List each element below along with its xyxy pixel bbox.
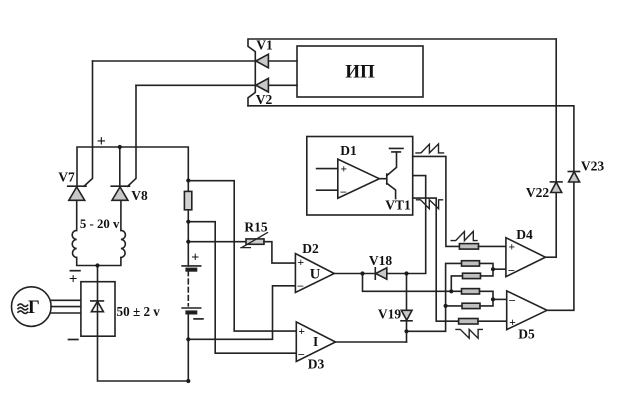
- resistor Rtop: [459, 244, 478, 250]
- generator G circle: [12, 287, 52, 327]
- wire branch to R15: [188, 241, 246, 243]
- wire V8 anode down to coil: [120, 200, 122, 230]
- svg-text:+: +: [509, 242, 516, 254]
- svg-text:D3: D3: [308, 357, 325, 372]
- wire Ra to D4 minus node: [480, 263, 494, 269]
- wire D1 input stubs: [317, 169, 338, 191]
- diode V1: [256, 54, 269, 68]
- inductor right coil: [121, 230, 126, 257]
- svg-text:–: –: [297, 280, 304, 292]
- pin labels op-amp D3: [297, 326, 305, 361]
- svg-text:Г: Г: [28, 298, 40, 318]
- wire R15 to D2 plus input: [264, 242, 295, 263]
- rectifier box: [81, 282, 115, 337]
- wire Rbot to D5 plus: [478, 320, 507, 322]
- diode V18: [375, 268, 387, 279]
- wire Rb down to node row: [451, 276, 462, 291]
- diode V23: [568, 172, 579, 183]
- wire battery bottom to D2 minus input: [188, 286, 295, 340]
- wire gate of V7 up to V1 row: [84, 61, 93, 186]
- wire D1 ramp output to Rtop feed: [413, 156, 460, 246]
- wire V2 row: [136, 84, 297, 86]
- inductor left coil: [72, 230, 77, 257]
- rheostat R15: [241, 233, 268, 248]
- svg-text:D4: D4: [516, 227, 533, 242]
- pin labels op-amp D1: [340, 164, 348, 199]
- pin labels op-amp D5: [508, 295, 516, 329]
- wire generator to rectifier (3 lines): [51, 300, 81, 313]
- svg-text:+: +: [69, 272, 78, 288]
- wire D1 inverted ramp output to Rbot feed: [413, 198, 459, 321]
- wire rail drop to V8: [119, 147, 121, 186]
- wire V18 bypass node down to resistor row: [363, 274, 462, 292]
- wire plus rail: [77, 147, 188, 191]
- svg-text:V18: V18: [369, 253, 392, 268]
- svg-text:–: –: [508, 265, 515, 277]
- wire rail shunt to battery: [187, 211, 189, 266]
- minus mark below rectifier: [69, 339, 78, 341]
- wire node to D4 minus: [493, 268, 506, 270]
- diode V19: [401, 310, 412, 321]
- wire V7 anode down to coil: [76, 200, 78, 230]
- resistor Rd: [462, 303, 480, 308]
- minus mark battery bottom: [194, 318, 203, 320]
- svg-text:I: I: [313, 334, 318, 349]
- wire battery to bottom rail corner: [187, 314, 189, 381]
- wire V19 bottom node to R-bank: [407, 263, 462, 331]
- sawtooth icon below Rbot (falling): [456, 329, 482, 338]
- wire node to D5 minus: [493, 298, 507, 300]
- wire dashed battery middle: [187, 271, 189, 306]
- svg-text:R15: R15: [244, 220, 267, 235]
- svg-text:+: +: [191, 251, 199, 266]
- svg-text:V2: V2: [256, 92, 273, 107]
- minus mark above rectifier plus: [70, 270, 80, 272]
- svg-text:V1: V1: [256, 38, 273, 53]
- svg-text:+: +: [509, 317, 516, 329]
- wire Rb to D4 minus node: [481, 269, 494, 276]
- wire bottom edge of outer box extended to V23 line down to D5 output: [248, 106, 574, 310]
- svg-text:D1: D1: [340, 143, 357, 158]
- wire Rc to D5 minus node: [480, 291, 494, 299]
- svg-text:–: –: [340, 186, 347, 198]
- wire V18 right node down through V19 to D3 output: [406, 274, 408, 343]
- block D1 modulator box: [307, 137, 413, 216]
- shunt resistor on rail: [184, 191, 191, 209]
- generator waves: [18, 304, 28, 307]
- svg-text:D5: D5: [518, 327, 535, 342]
- svg-text:ИП: ИП: [345, 62, 375, 83]
- block ИП: [297, 46, 423, 97]
- wire rectifier bottom to ground rail: [98, 336, 189, 381]
- wire coil bottoms joined: [77, 258, 121, 266]
- pin labels op-amp D2: [297, 257, 305, 292]
- resistor Rb: [463, 273, 481, 278]
- wire V1 row: [93, 60, 298, 62]
- wire gate of V8 up to V2 row: [128, 85, 136, 186]
- svg-text:U: U: [310, 267, 321, 283]
- wire right edge of outer box down to D4 output (through V22): [555, 39, 557, 257]
- svg-text:V7: V7: [58, 170, 75, 185]
- svg-text:+: +: [341, 164, 348, 176]
- resistor Ra: [462, 261, 480, 266]
- wire junction down to rectifier box: [97, 266, 99, 282]
- op-amp D4: [506, 238, 546, 277]
- svg-text:+: +: [97, 133, 106, 150]
- svg-text:50 ± 2 v: 50 ± 2 v: [117, 304, 161, 319]
- wire branch shunt bottom to D3 minus input: [188, 222, 296, 354]
- op-amp D2: [295, 254, 334, 293]
- svg-text:5 - 20 v: 5 - 20 v: [80, 216, 120, 231]
- svg-text:VT1: VT1: [385, 198, 411, 213]
- diode V22: [550, 182, 562, 193]
- resistor Rbot: [459, 319, 478, 325]
- wire Rtop to D4 plus: [479, 245, 506, 247]
- wire D4 output: [545, 256, 556, 258]
- svg-text:V23: V23: [581, 159, 604, 174]
- wire branch shunt top to D3 plus input: [188, 181, 296, 331]
- svg-text:+: +: [298, 257, 305, 269]
- svg-text:+: +: [298, 326, 305, 338]
- transistor VT1: [379, 148, 403, 198]
- op-amp D3: [296, 322, 335, 362]
- wire Rd to D5 minus node: [480, 299, 493, 306]
- rectifier diode: [91, 282, 104, 337]
- diode V2: [256, 78, 269, 92]
- resistor Rc: [462, 289, 480, 294]
- pulse unit outer box with notched left edge: [248, 39, 556, 106]
- svg-text:D2: D2: [302, 241, 319, 256]
- sawtooth waveform icon (falling): [417, 200, 443, 209]
- thyristor V7: [68, 186, 86, 200]
- thyristor V8: [111, 186, 129, 200]
- pin labels op-amp D4: [508, 242, 516, 277]
- wire branch to resistor Rd: [446, 305, 462, 307]
- battery cell bottom: [182, 308, 201, 314]
- op-amp D1: [338, 159, 380, 198]
- op-amp D5: [507, 291, 547, 330]
- svg-text:–: –: [297, 349, 304, 361]
- sawtooth icon above Rtop (rising): [451, 231, 477, 240]
- svg-text:V8: V8: [131, 188, 148, 203]
- battery cell top: [182, 266, 201, 271]
- svg-text:V19: V19: [378, 307, 401, 322]
- svg-text:V22: V22: [526, 185, 549, 200]
- svg-text:–: –: [508, 295, 515, 307]
- wire D3 output: [336, 341, 407, 343]
- wire D2 output row to PWM input of D1 box: [334, 176, 426, 274]
- sawtooth waveform icon (rising): [416, 144, 444, 153]
